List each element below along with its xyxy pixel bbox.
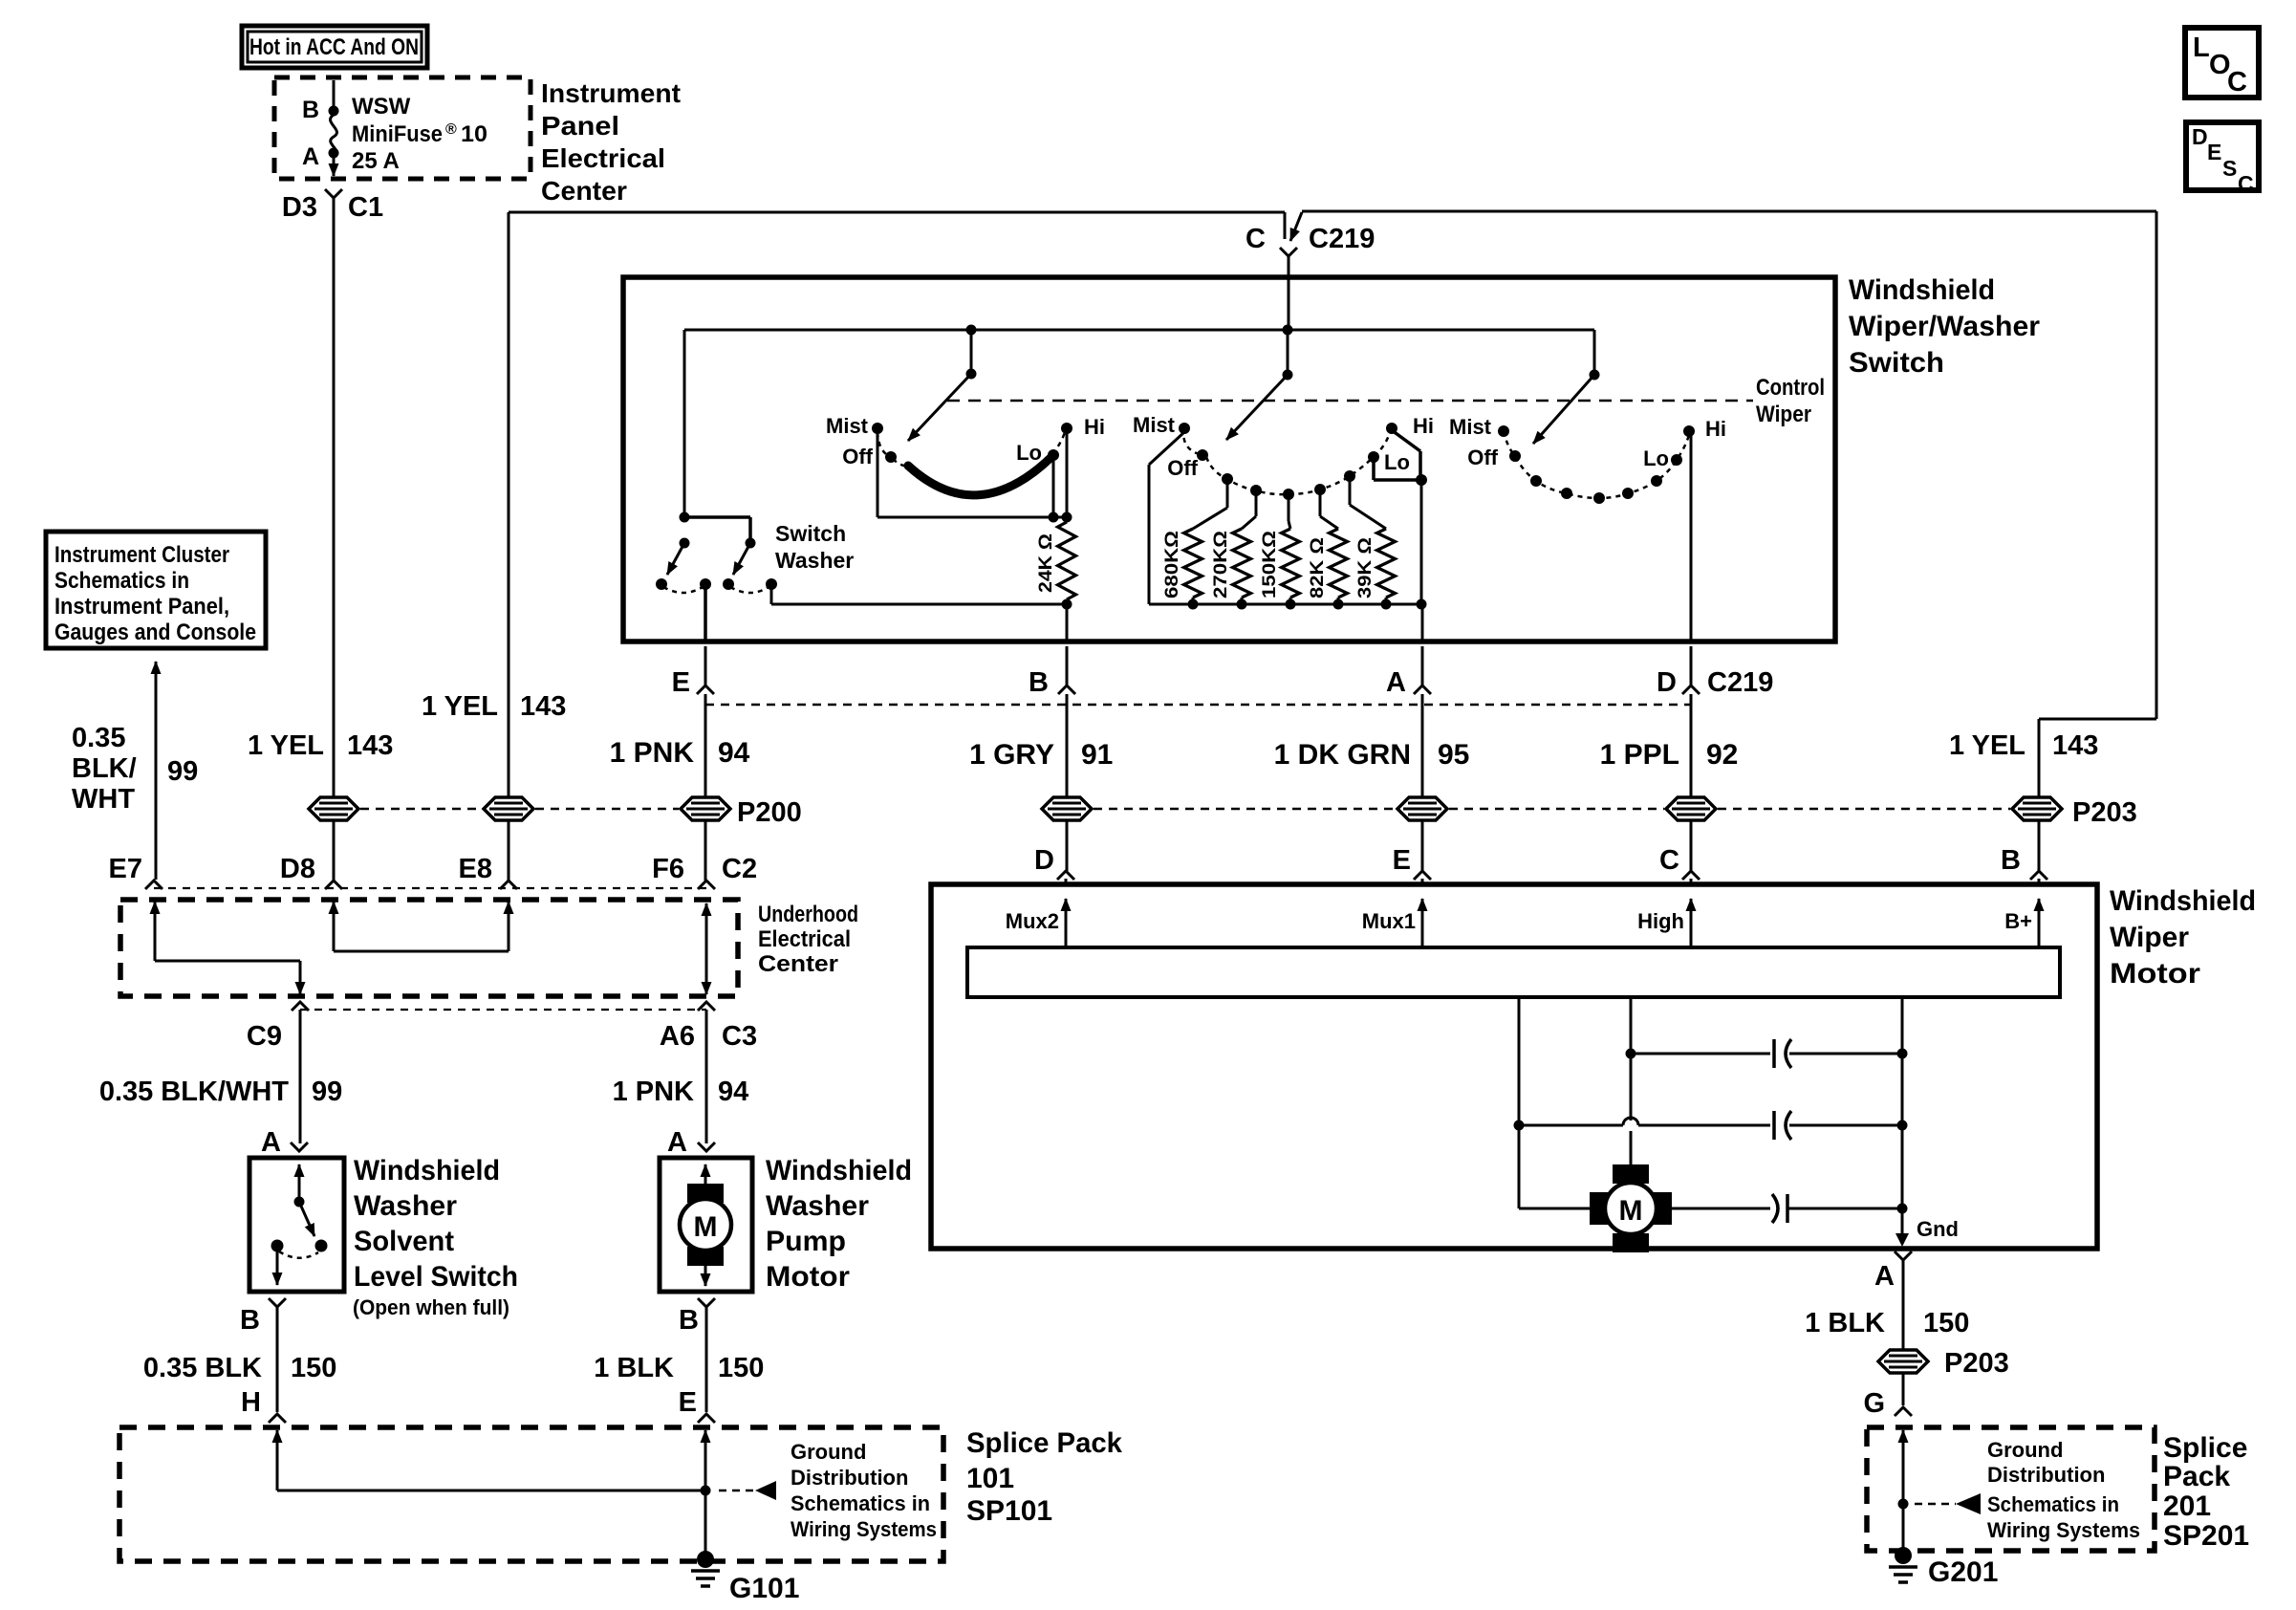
svg-text:Motor: Motor bbox=[766, 1261, 850, 1293]
svg-text:C: C bbox=[1245, 224, 1266, 254]
svg-text:Schematics in: Schematics in bbox=[1987, 1492, 2119, 1516]
input High arrow bbox=[1690, 899, 1693, 947]
connector C219 pin B bbox=[1066, 646, 1069, 685]
connector C219 pin A bbox=[1421, 646, 1424, 685]
junction (cap row 1 left) bbox=[1626, 1049, 1636, 1059]
svg-text:99: 99 bbox=[167, 756, 198, 787]
svg-text:G201: G201 bbox=[1928, 1556, 1998, 1588]
svg-text:B: B bbox=[679, 1305, 699, 1336]
svg-text:Off: Off bbox=[1167, 456, 1198, 480]
svg-text:P203: P203 bbox=[2072, 797, 2137, 828]
svg-text:Instrument Panel,: Instrument Panel, bbox=[54, 594, 229, 620]
svg-text:WSW: WSW bbox=[352, 94, 411, 120]
resistor 680K bbox=[1226, 483, 1229, 508]
connector P203 (gnd) bbox=[1878, 1350, 1928, 1373]
splice junction SP101 bbox=[701, 1486, 711, 1496]
connector pin B (solvent switch) bbox=[269, 1298, 286, 1307]
connector row dashed link C9-C3 bbox=[300, 1009, 706, 1011]
svg-text:Windshield: Windshield bbox=[2110, 885, 2256, 917]
svg-text:MiniFuse: MiniFuse bbox=[352, 121, 443, 147]
svg-text:M: M bbox=[694, 1211, 718, 1243]
wire 92 below switch bbox=[1690, 694, 1693, 796]
svg-text:Wiper: Wiper bbox=[1756, 402, 1811, 427]
svg-text:Windshield: Windshield bbox=[354, 1155, 500, 1186]
svg-text:G: G bbox=[1863, 1388, 1885, 1419]
svg-text:C9: C9 bbox=[247, 1021, 282, 1052]
svg-text:High: High bbox=[1637, 909, 1684, 933]
svg-text:Mux1: Mux1 bbox=[1362, 909, 1416, 933]
svg-text:Mist: Mist bbox=[826, 414, 869, 438]
resistor 270K bbox=[1255, 494, 1258, 516]
svg-text:Ground: Ground bbox=[1987, 1438, 2063, 1462]
washer switch arm 1 bbox=[667, 543, 684, 575]
svg-text:94: 94 bbox=[718, 737, 750, 769]
connector pin A (solvent switch) bbox=[291, 1142, 308, 1151]
svg-text:Lo: Lo bbox=[1016, 441, 1042, 465]
svg-text:143: 143 bbox=[347, 730, 393, 761]
wire C2 to C3 inside underhood center bbox=[705, 903, 708, 946]
svg-text:Windshield: Windshield bbox=[1849, 274, 1995, 306]
svg-text:Off: Off bbox=[1467, 446, 1498, 469]
svg-text:Hi: Hi bbox=[1413, 414, 1434, 438]
svg-text:Pump: Pump bbox=[766, 1226, 846, 1257]
wire to arm 2 pivot bbox=[1287, 330, 1289, 375]
svg-text:D: D bbox=[2192, 124, 2208, 149]
capacitor C2 (noise suppression, middle) with wire hop bbox=[1519, 1124, 1623, 1127]
svg-text:A: A bbox=[261, 1127, 281, 1158]
wire from fuse pin A (arrow) bbox=[333, 156, 336, 176]
svg-text:B: B bbox=[1029, 667, 1049, 698]
contact Off (switch 3) bbox=[1509, 450, 1521, 462]
washer switch feed link bbox=[684, 515, 750, 519]
Underhood Electrical Center box bbox=[120, 900, 738, 996]
wire to arm 1 pivot bbox=[970, 330, 973, 374]
wire 150 motor to P203 bbox=[1902, 1260, 1905, 1350]
svg-text:WHT: WHT bbox=[72, 784, 135, 815]
wire stubs into motor box bbox=[1065, 879, 1068, 884]
control wiper dashed line bbox=[947, 400, 1753, 402]
contact Lo (switch 1) bbox=[1048, 449, 1059, 461]
solvent switch dashed throw bbox=[279, 1251, 318, 1258]
svg-text:1 PNK: 1 PNK bbox=[613, 1077, 694, 1107]
Instrument Cluster Schematics box bbox=[46, 532, 266, 648]
svg-text:91: 91 bbox=[1081, 739, 1113, 771]
contact Off (switch 1) bbox=[885, 451, 897, 463]
svg-text:Motor: Motor bbox=[2110, 958, 2200, 990]
svg-text:P203: P203 bbox=[1944, 1348, 2009, 1379]
Gnd arrow bbox=[1895, 1233, 1909, 1247]
svg-text:B: B bbox=[302, 97, 319, 123]
svg-text:0.35 BLK: 0.35 BLK bbox=[143, 1353, 262, 1383]
svg-text:Pack: Pack bbox=[2163, 1461, 2230, 1492]
motor connector pin B bbox=[2030, 871, 2047, 880]
motor connector pin D bbox=[1057, 871, 1074, 880]
svg-text:270KΩ: 270KΩ bbox=[1211, 531, 1231, 598]
ground pointer bbox=[719, 1490, 755, 1492]
fuse pin A terminal bbox=[329, 148, 339, 159]
connector pin A (wiper motor) bbox=[1895, 1251, 1912, 1260]
svg-text:Schematics in: Schematics in bbox=[791, 1491, 930, 1515]
svg-text:Wiper: Wiper bbox=[2110, 922, 2189, 953]
svg-text:D: D bbox=[1657, 667, 1677, 698]
solvent switch output arrow bbox=[276, 1251, 279, 1285]
connector pin H (splice pack) bbox=[269, 1414, 286, 1423]
svg-text:A: A bbox=[1386, 667, 1406, 698]
svg-text:C2: C2 bbox=[722, 854, 757, 884]
svg-text:E: E bbox=[2207, 140, 2221, 164]
splice wire from G bbox=[1902, 1430, 1905, 1477]
contact Lo (switch 3) bbox=[1671, 454, 1682, 466]
svg-text:F6: F6 bbox=[652, 854, 684, 884]
connector C219 pin D bbox=[1690, 646, 1693, 685]
contact Off (switch 2) bbox=[1197, 449, 1208, 461]
mux2 bus left bbox=[770, 587, 773, 604]
svg-text:Gauges and Console: Gauges and Console bbox=[54, 620, 256, 645]
svg-text:E: E bbox=[679, 1387, 697, 1418]
wire 99 up-arrow to cluster bbox=[155, 662, 158, 880]
splice wire from E bbox=[704, 1430, 707, 1472]
fuse pin B terminal bbox=[329, 106, 339, 117]
motor logic bar bbox=[967, 947, 2060, 997]
svg-text:95: 95 bbox=[1438, 739, 1469, 771]
label box: Hot in ACC And ON bbox=[242, 26, 427, 68]
washer switch pivots bbox=[680, 538, 690, 549]
svg-text:Lo: Lo bbox=[1643, 446, 1669, 470]
svg-text:Panel: Panel bbox=[541, 111, 619, 141]
delay contacts (switch 2) bbox=[1222, 473, 1233, 485]
contact Hi (switch 2) bbox=[1386, 423, 1397, 434]
contact Lo (switch 2) bbox=[1368, 451, 1379, 463]
svg-text:C: C bbox=[2227, 67, 2247, 98]
fuse WSW MiniFuse 10 25A element bbox=[331, 115, 337, 156]
svg-text:Switch: Switch bbox=[775, 521, 846, 546]
svg-text:B: B bbox=[2001, 845, 2021, 876]
svg-text:®: ® bbox=[445, 121, 457, 138]
wiper switch arm 3 bbox=[1590, 370, 1600, 381]
contact Mist (switch 2) bbox=[1179, 423, 1190, 434]
connector pin A6 / C3 bbox=[698, 1002, 715, 1011]
svg-text:A: A bbox=[1874, 1261, 1895, 1292]
svg-text:H: H bbox=[241, 1387, 261, 1418]
svg-text:Distribution: Distribution bbox=[1987, 1463, 2105, 1487]
junction (cap row 2 right) bbox=[1897, 1120, 1908, 1131]
svg-text:Solvent: Solvent bbox=[354, 1226, 454, 1257]
connector pin F6 / C2 bbox=[698, 881, 715, 889]
ground pointer 201 bbox=[1915, 1503, 1956, 1506]
svg-text:Wiper/Washer: Wiper/Washer bbox=[1849, 311, 2040, 342]
connector pin D8 bbox=[325, 881, 342, 889]
svg-text:94: 94 bbox=[718, 1077, 748, 1107]
svg-text:Gnd: Gnd bbox=[1917, 1217, 1959, 1241]
connector row dashed link bbox=[154, 887, 706, 889]
svg-text:S: S bbox=[2222, 156, 2237, 181]
connector C1 pin D3 bbox=[325, 189, 342, 198]
svg-text:Switch: Switch bbox=[1849, 347, 1944, 379]
svg-text:A6: A6 bbox=[660, 1021, 695, 1052]
svg-text:C: C bbox=[1659, 845, 1679, 876]
solvent switch pivot bbox=[294, 1197, 305, 1207]
splice junction SP201 bbox=[1898, 1499, 1909, 1510]
svg-text:Mist: Mist bbox=[1449, 415, 1492, 439]
svg-text:Off: Off bbox=[842, 445, 873, 468]
connector P200 (wire 143 D8) bbox=[309, 797, 358, 820]
svg-text:Control: Control bbox=[1756, 375, 1825, 401]
Windshield Wiper/Washer Switch box bbox=[623, 277, 1835, 642]
svg-text:Washer: Washer bbox=[766, 1190, 869, 1222]
wiper switch arm 2 bbox=[1283, 370, 1293, 381]
svg-text:1 YEL: 1 YEL bbox=[422, 691, 498, 722]
wire 143 to motor pin B bbox=[2038, 821, 2041, 871]
wire 143 P200 to D8 bbox=[333, 821, 336, 881]
svg-text:Instrument: Instrument bbox=[541, 78, 681, 108]
wiper track arc (thick) bbox=[908, 457, 1051, 495]
svg-text:Electrical: Electrical bbox=[541, 143, 665, 173]
svg-text:E7: E7 bbox=[109, 854, 142, 884]
connector P200 (wire 143 E8) bbox=[484, 797, 533, 820]
Windshield Wiper Motor box bbox=[931, 884, 2097, 1249]
svg-text:25 A: 25 A bbox=[352, 148, 400, 174]
wire 143 P200 to E8 bbox=[508, 821, 510, 881]
wire logic bar to motor armature (left) bbox=[1518, 997, 1521, 1208]
solvent switch contacts bbox=[315, 1240, 328, 1252]
feed wire inside switch (horizontal) bbox=[684, 329, 1594, 332]
svg-text:1 BLK: 1 BLK bbox=[1805, 1308, 1885, 1338]
intermediate contacts (switch 3) bbox=[1530, 475, 1542, 487]
svg-text:92: 92 bbox=[1706, 739, 1738, 771]
svg-text:1 GRY: 1 GRY bbox=[969, 739, 1054, 771]
switch 2 Mist leg bbox=[1149, 432, 1184, 465]
motor connector pin C bbox=[1682, 871, 1700, 880]
svg-text:SP201: SP201 bbox=[2163, 1520, 2249, 1552]
svg-text:39K Ω: 39K Ω bbox=[1355, 537, 1375, 598]
wire 95 to motor pin E bbox=[1421, 821, 1424, 871]
resistor ladder bus bbox=[1149, 603, 1422, 606]
wire into fuse pin B bbox=[333, 80, 336, 107]
svg-text:0.35 BLK/WHT: 0.35 BLK/WHT bbox=[99, 1077, 289, 1107]
junction (cap row 1 right) bbox=[1897, 1049, 1908, 1059]
svg-text:Splice Pack: Splice Pack bbox=[966, 1427, 1122, 1459]
svg-text:680KΩ: 680KΩ bbox=[1162, 531, 1182, 598]
wire 150 P203 to G bbox=[1902, 1374, 1905, 1405]
svg-text:201: 201 bbox=[2163, 1490, 2211, 1522]
svg-text:24K Ω: 24K Ω bbox=[1036, 533, 1056, 593]
washer switch arm 2 bbox=[733, 543, 750, 575]
wire 143 to C219 bbox=[509, 211, 1285, 214]
svg-text:Center: Center bbox=[758, 951, 838, 977]
svg-text:1 PNK: 1 PNK bbox=[610, 737, 695, 769]
connector P203 (wire 91) bbox=[1042, 797, 1092, 820]
junctions on common (switch 1) bbox=[1049, 512, 1059, 523]
svg-text:1 DK GRN: 1 DK GRN bbox=[1274, 739, 1411, 771]
svg-text:Electrical: Electrical bbox=[758, 926, 851, 952]
washer switch feed junction bbox=[680, 512, 690, 523]
wire Hi contact drop bbox=[1066, 432, 1069, 517]
svg-text:L: L bbox=[2193, 33, 2210, 63]
connector P200 dashed link bbox=[360, 808, 482, 811]
svg-text:150: 150 bbox=[291, 1353, 336, 1383]
svg-text:101: 101 bbox=[966, 1463, 1014, 1494]
connector C219 pin E bbox=[704, 646, 707, 685]
washer switch contacts bbox=[656, 578, 667, 590]
svg-text:Instrument Cluster: Instrument Cluster bbox=[54, 542, 229, 568]
wire logic bar to Gnd bbox=[1901, 997, 1904, 1243]
wire 150 pump to splice bbox=[705, 1307, 708, 1412]
contact Mist (switch 1) bbox=[872, 423, 883, 434]
Lo box bbox=[1392, 430, 1420, 451]
svg-text:(Open when full): (Open when full) bbox=[353, 1295, 509, 1319]
svg-text:Underhood: Underhood bbox=[758, 902, 858, 927]
wiper switch arm 1 bbox=[966, 369, 977, 380]
svg-text:C3: C3 bbox=[722, 1021, 757, 1052]
svg-text:150: 150 bbox=[1923, 1308, 1969, 1338]
svg-text:Level Switch: Level Switch bbox=[354, 1261, 518, 1293]
svg-text:150: 150 bbox=[718, 1353, 764, 1383]
splice wire from H bbox=[276, 1430, 279, 1472]
svg-text:Wiring Systems: Wiring Systems bbox=[791, 1517, 937, 1541]
input Mux2 arrow bbox=[1065, 899, 1068, 947]
svg-text:E: E bbox=[1393, 845, 1411, 876]
svg-text:Mux2: Mux2 bbox=[1006, 909, 1059, 933]
solvent switch arm bbox=[299, 1202, 314, 1236]
connector pin C9 bbox=[292, 1002, 309, 1011]
resistor 150K bbox=[1288, 498, 1290, 521]
DESC box bbox=[2186, 122, 2259, 190]
svg-text:B+: B+ bbox=[2004, 909, 2032, 933]
svg-text:P200: P200 bbox=[737, 797, 802, 828]
connector pin B (pump) bbox=[698, 1298, 715, 1307]
LOC box bbox=[2185, 28, 2259, 98]
capacitor C3 (noise suppression, bottom) bbox=[1672, 1207, 1770, 1210]
svg-text:E8: E8 bbox=[459, 854, 492, 884]
svg-text:1 YEL: 1 YEL bbox=[248, 730, 324, 761]
washer pump motor M symbol bbox=[687, 1184, 724, 1203]
svg-text:10: 10 bbox=[461, 121, 487, 147]
connector P203 (wire 143) bbox=[2012, 797, 2062, 820]
D output bbox=[1690, 435, 1693, 642]
svg-text:BLK/: BLK/ bbox=[72, 753, 137, 784]
svg-text:Hi: Hi bbox=[1084, 415, 1105, 439]
junction at C219 feed bbox=[1283, 325, 1293, 336]
connector P200 (wire 94) bbox=[681, 797, 730, 820]
svg-text:SP101: SP101 bbox=[966, 1495, 1052, 1527]
junction (cap row 3 right) bbox=[1897, 1204, 1908, 1214]
input Mux1 arrow bbox=[1421, 899, 1424, 947]
resistor 24K ohm bbox=[1058, 522, 1076, 599]
wire link D8 to E8 inside underhood center bbox=[333, 902, 336, 951]
junction at switch arm 1 feed bbox=[966, 325, 977, 336]
wire 91 to motor pin D bbox=[1066, 821, 1069, 871]
wire 92 to motor pin C bbox=[1690, 821, 1693, 871]
wire 143 right feed to B+ bbox=[1302, 210, 2156, 213]
washer common wire (E) bbox=[704, 587, 707, 642]
connector pin A (pump motor) bbox=[698, 1142, 715, 1151]
connector pin E8 bbox=[500, 881, 517, 889]
svg-text:C1: C1 bbox=[348, 192, 383, 223]
feed wire drop to washer switch bbox=[683, 330, 686, 517]
resistor 82K bbox=[1319, 493, 1322, 516]
Windshield Washer Solvent Level Switch box bbox=[249, 1158, 344, 1292]
svg-text:Distribution: Distribution bbox=[791, 1466, 908, 1490]
svg-text:143: 143 bbox=[520, 691, 566, 722]
junction (cap row 2 left) bbox=[1514, 1120, 1525, 1131]
contact Hi (switch 1) bbox=[1061, 423, 1072, 434]
svg-text:Center: Center bbox=[541, 176, 627, 206]
wire to arm 3 pivot bbox=[1593, 330, 1596, 375]
contact Mist (switch 3) bbox=[1498, 425, 1509, 437]
Windshield Washer Pump Motor box bbox=[660, 1158, 752, 1292]
Splice Pack 101 box bbox=[119, 1427, 943, 1561]
wiper motor M bbox=[1613, 1164, 1649, 1184]
svg-text:C219: C219 bbox=[1309, 224, 1375, 254]
svg-text:Windshield: Windshield bbox=[766, 1155, 912, 1186]
resistor 39K bbox=[1349, 480, 1352, 505]
wire 143 from fuse to P200 bbox=[333, 198, 336, 796]
svg-text:Splice: Splice bbox=[2163, 1432, 2247, 1464]
input B+ arrow bbox=[2038, 899, 2041, 947]
wire 94 P200 to C2 bbox=[704, 821, 707, 881]
wire 150 solvent switch to splice bbox=[276, 1307, 279, 1412]
svg-text:Hot in ACC And ON: Hot in ACC And ON bbox=[249, 34, 419, 60]
connector P203 (wire 95) bbox=[1397, 797, 1447, 820]
svg-text:1 YEL: 1 YEL bbox=[1949, 730, 2025, 761]
connector pin E7 bbox=[145, 881, 162, 889]
svg-text:Ground: Ground bbox=[791, 1440, 866, 1464]
svg-text:Lo: Lo bbox=[1384, 450, 1410, 474]
wire 95 below switch bbox=[1421, 694, 1424, 796]
connector pin G (splice pack 201) bbox=[1895, 1407, 1912, 1416]
connector P203 dashed link bbox=[1094, 808, 1396, 811]
ground G201 bbox=[1895, 1547, 1912, 1564]
svg-text:C219: C219 bbox=[1707, 667, 1773, 698]
wire Mist contact to common (switch 1) bbox=[877, 432, 879, 517]
svg-text:D: D bbox=[1034, 845, 1054, 876]
wire 94 below switch bbox=[704, 694, 707, 796]
svg-text:Hi: Hi bbox=[1705, 417, 1726, 441]
svg-text:D8: D8 bbox=[280, 854, 315, 884]
svg-text:0.35: 0.35 bbox=[72, 723, 125, 753]
wire logic bar to motor top (with hop) bbox=[1630, 997, 1633, 1120]
svg-text:Schematics in: Schematics in bbox=[54, 568, 189, 594]
svg-text:D3: D3 bbox=[282, 192, 317, 223]
svg-text:1 PPL: 1 PPL bbox=[1600, 739, 1679, 771]
motor connector pin E bbox=[1414, 871, 1431, 880]
svg-text:M: M bbox=[1619, 1195, 1643, 1227]
washer switch dashed throws bbox=[663, 587, 703, 593]
connector P203 (wire 92) bbox=[1666, 797, 1716, 820]
Splice Pack 201 box bbox=[1867, 1427, 2155, 1551]
svg-text:Washer: Washer bbox=[354, 1190, 457, 1222]
capacitor C1 (noise suppression, top) bbox=[1631, 1053, 1770, 1055]
svg-text:Wiring Systems: Wiring Systems bbox=[1987, 1518, 2140, 1542]
svg-text:82K Ω: 82K Ω bbox=[1308, 537, 1328, 598]
svg-text:Mist: Mist bbox=[1133, 413, 1176, 437]
svg-text:E: E bbox=[672, 667, 690, 698]
wire 94 to washer pump motor bbox=[705, 1010, 708, 1143]
svg-text:1 BLK: 1 BLK bbox=[594, 1353, 674, 1383]
wire 99 to solvent level switch bbox=[299, 1010, 302, 1143]
svg-text:A: A bbox=[667, 1127, 687, 1158]
svg-text:99: 99 bbox=[312, 1077, 342, 1107]
Instrument Panel Electrical Center box bbox=[274, 77, 531, 179]
svg-text:C: C bbox=[2238, 171, 2254, 196]
svg-text:G101: G101 bbox=[729, 1573, 799, 1604]
svg-text:A: A bbox=[302, 143, 319, 170]
svg-text:143: 143 bbox=[2052, 730, 2098, 761]
wire 91 below switch bbox=[1066, 694, 1069, 796]
pump motor output arrow bbox=[704, 1266, 707, 1286]
connector C219 dashed link bbox=[705, 704, 1691, 707]
wire Lo contact drop bbox=[1052, 460, 1055, 517]
